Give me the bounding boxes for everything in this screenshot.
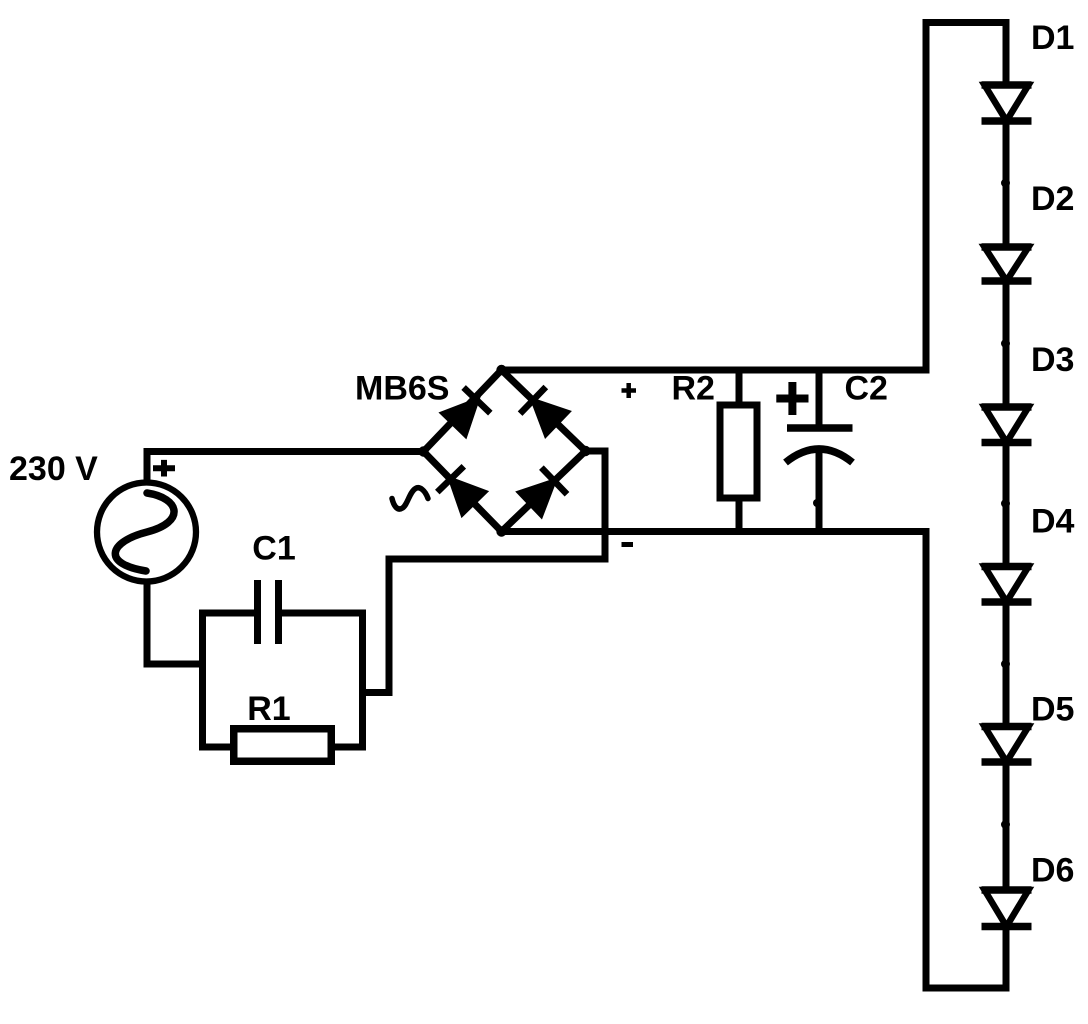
svg-text:D6: D6 — [1031, 852, 1074, 890]
svg-text:D3: D3 — [1031, 341, 1074, 379]
svg-text:D5: D5 — [1031, 691, 1074, 729]
svg-text:D4: D4 — [1031, 503, 1075, 541]
svg-text:230 V: 230 V — [9, 450, 98, 488]
svg-text:R2: R2 — [672, 370, 715, 408]
svg-text:C1: C1 — [252, 530, 295, 568]
svg-text:R1: R1 — [247, 690, 290, 728]
svg-text:MB6S: MB6S — [355, 369, 449, 407]
svg-text:C2: C2 — [845, 370, 888, 408]
svg-text:D2: D2 — [1031, 180, 1074, 218]
svg-text:D1: D1 — [1031, 19, 1074, 57]
